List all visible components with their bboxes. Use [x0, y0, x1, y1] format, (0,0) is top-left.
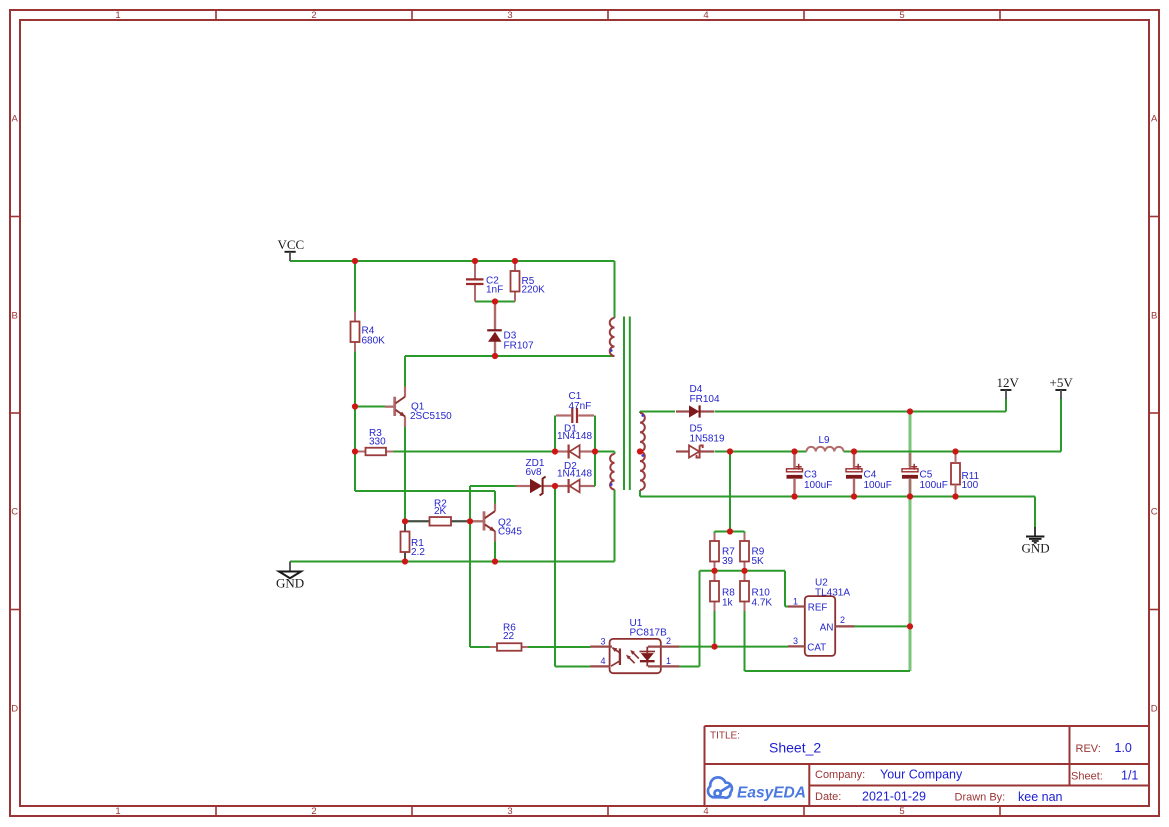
wire R6 row [470, 646, 591, 648]
svg-text:1N5819: 1N5819 [690, 434, 725, 445]
resistor R1 [401, 522, 426, 561]
svg-text:Drawn By:: Drawn By: [955, 792, 1006, 804]
node R7/R9 top [727, 528, 733, 534]
svg-text:Sheet_2: Sheet_2 [769, 740, 821, 756]
wire output GND rail [640, 496, 1035, 498]
wire aux winding top [595, 451, 615, 453]
12V net flag [997, 375, 1020, 399]
transformer primary winding [610, 318, 615, 356]
svg-text:680K: 680K [362, 336, 386, 347]
svg-text:C5: C5 [920, 470, 933, 481]
svg-text:47nF: 47nF [569, 401, 592, 412]
svg-text:220K: 220K [522, 285, 546, 296]
wire R7-R9 bottom row [700, 570, 786, 572]
wire opto pin4 row [555, 666, 591, 668]
svg-text:3: 3 [793, 636, 798, 646]
inductor L9 [807, 435, 844, 452]
node VCC rail / C2 [472, 258, 478, 264]
svg-text:TL431A: TL431A [815, 587, 850, 598]
node C5 bottom [907, 493, 913, 499]
svg-text:1: 1 [115, 10, 120, 21]
wire Q2 collector row [355, 490, 495, 492]
svg-text:2.2: 2.2 [411, 547, 425, 558]
wire R7 top [714, 532, 716, 542]
wire C2-R5 link [475, 301, 515, 303]
svg-text:CAT: CAT [807, 642, 826, 653]
node D1 right / aux [592, 448, 598, 454]
wire REF lead link [785, 606, 788, 608]
svg-text:5: 5 [899, 10, 904, 21]
node C4 bottom [851, 493, 857, 499]
capacitor C4 [846, 453, 892, 495]
svg-text:D: D [1151, 703, 1158, 714]
wire opto pin1 up [699, 571, 701, 667]
wire D3 branch bottom [494, 342, 496, 356]
svg-text:100uF: 100uF [804, 480, 832, 491]
zener diode ZD1 [516, 458, 555, 495]
diode D5 [676, 424, 725, 458]
wire R3 row to D1 node [355, 451, 555, 453]
svg-text:1N4148: 1N4148 [557, 431, 592, 442]
wire Q1 emitter drop [404, 417, 406, 522]
wire D2 row [555, 485, 595, 487]
wire ZD1 corner drop [469, 486, 471, 521]
wire R4 branch [354, 261, 356, 407]
svg-text:L9: L9 [819, 435, 831, 446]
svg-text:3: 3 [507, 806, 512, 817]
wire 5V rail right [844, 451, 1062, 453]
wire +5V flag drop [1060, 398, 1062, 452]
wire aux winding top stub [614, 452, 616, 455]
capacitor C3 [787, 453, 833, 495]
svg-text:3: 3 [507, 10, 512, 21]
svg-text:C: C [11, 506, 18, 517]
diode D2 [556, 461, 594, 493]
node snubber bottom [492, 298, 498, 304]
svg-text:1.0: 1.0 [1115, 741, 1132, 755]
svg-text:100: 100 [962, 480, 979, 491]
wire 5V rail left [715, 451, 807, 453]
capacitor C1 [556, 391, 594, 423]
svg-text:GND: GND [276, 576, 304, 591]
svg-text:1nF: 1nF [486, 285, 503, 296]
resistor R5 [511, 262, 546, 302]
node VCC rail / R4 [352, 258, 358, 264]
svg-text:Sheet:: Sheet: [1071, 771, 1103, 783]
svg-text:FR104: FR104 [690, 394, 720, 405]
wire GND flag drop [1034, 497, 1036, 528]
svg-text:5K: 5K [752, 556, 765, 567]
wire C1 left leg [554, 416, 556, 452]
wire Q1 collector drop [404, 356, 406, 397]
resistor R2 [406, 499, 469, 526]
svg-text:EasyEDA: EasyEDA [737, 785, 806, 802]
capacitor C2 [466, 262, 503, 302]
svg-text:GND: GND [1022, 541, 1050, 556]
svg-text:Company:: Company: [815, 769, 865, 781]
label U1 [630, 618, 668, 639]
wire CAT row [679, 646, 788, 648]
svg-text:2: 2 [666, 636, 671, 646]
wire R2 row [405, 520, 470, 522]
wire 12V flag stem [1005, 398, 1007, 412]
svg-text:330: 330 [369, 437, 386, 448]
EasyEDA logo [708, 777, 732, 797]
GND net flag left [276, 562, 304, 591]
svg-text:22: 22 [503, 631, 515, 642]
wire D3 branch top [494, 302, 496, 331]
wire clamp node drop to opto [554, 486, 556, 667]
resistor R9 [740, 533, 765, 570]
node R9/R10 [741, 568, 747, 574]
wire R4 node to R3 [354, 407, 356, 452]
wire R10 bottom row [745, 670, 911, 672]
VCC net flag [278, 237, 305, 261]
resistor R11 [951, 453, 980, 495]
wire primary bottom to Q1 collector [405, 355, 615, 357]
node D1 left / C1 [552, 448, 558, 454]
node Q2 emitter GND [492, 558, 498, 564]
wire AN row [835, 625, 910, 627]
svg-text:1: 1 [666, 656, 671, 666]
svg-text:100uF: 100uF [920, 480, 948, 491]
node R11 top [952, 448, 958, 454]
node secondary tap [637, 448, 643, 454]
wire Q2 base to R6 drop [469, 521, 471, 647]
resistor R3 [357, 428, 394, 455]
node R7/R8 [711, 568, 717, 574]
svg-text:5: 5 [899, 806, 904, 817]
wire VCC top rail [290, 260, 615, 262]
wire REF drop [784, 571, 786, 607]
svg-text:2: 2 [840, 615, 845, 625]
svg-text:C: C [1151, 506, 1158, 517]
svg-text:2: 2 [311, 806, 316, 817]
wire secondary top stub [639, 412, 641, 414]
node Q2 base [467, 518, 473, 524]
wire 12V to TL431 anode vertical [909, 412, 912, 672]
wire secondary top row [640, 411, 675, 413]
wire R10 branch [744, 571, 746, 671]
svg-text:1: 1 [793, 596, 798, 606]
label U2 [815, 578, 850, 599]
wire secondary bottom stub [639, 490, 641, 497]
GND net flag right [1022, 527, 1050, 556]
wire left drop to Q2 collector row [354, 452, 356, 492]
svg-text:1: 1 [115, 806, 120, 817]
svg-text:39: 39 [722, 556, 734, 567]
node R11 bottom [952, 493, 958, 499]
wire R8 branch [714, 571, 716, 647]
resistor R4 [351, 312, 386, 352]
svg-text:3: 3 [601, 636, 606, 646]
svg-text:C3: C3 [804, 470, 817, 481]
transformer aux winding [610, 454, 614, 490]
wire R5 branch [514, 261, 516, 302]
svg-text:B: B [1151, 310, 1157, 321]
resistor R6 [490, 623, 528, 651]
wire C2 branch top [474, 261, 476, 279]
svg-text:D: D [11, 703, 18, 714]
node D3 anode [492, 353, 498, 359]
svg-text:6v8: 6v8 [526, 467, 543, 478]
wire D1 row [555, 451, 595, 453]
svg-text:B: B [12, 310, 18, 321]
node Q1 base / R4 [352, 403, 358, 409]
svg-text:REF: REF [808, 603, 828, 614]
wire opto pin1 link [679, 666, 700, 668]
svg-text:+5V: +5V [1050, 375, 1074, 390]
resistor R8 [710, 572, 735, 611]
svg-text:kee nan: kee nan [1018, 790, 1063, 804]
wire aux winding bottom drop [614, 490, 616, 562]
diode D3 [487, 303, 534, 355]
node R3 left [352, 448, 358, 454]
wire 12V rail [715, 411, 1007, 413]
svg-text:1k: 1k [722, 598, 734, 609]
svg-text:TITLE:: TITLE: [710, 731, 740, 742]
svg-text:2021-01-29: 2021-01-29 [862, 790, 926, 804]
svg-text:VCC: VCC [278, 237, 305, 252]
svg-text:REV:: REV: [1076, 743, 1101, 755]
op-amp U1 PC817B optocoupler [590, 639, 679, 673]
svg-text:4: 4 [601, 656, 606, 666]
svg-text:4: 4 [703, 10, 708, 21]
wire R7-R9 top link [715, 531, 745, 533]
polarity dot secondary lower [641, 454, 644, 457]
polarity dot primary [610, 349, 613, 352]
svg-text:4.7K: 4.7K [752, 598, 773, 609]
capacitor C5 [902, 453, 948, 495]
node C3 top [791, 448, 797, 454]
wire R1 branch [404, 521, 406, 561]
svg-text:Your Company: Your Company [880, 768, 963, 782]
svg-text:1/1: 1/1 [1121, 769, 1138, 783]
wire Q2 collector drop [494, 491, 496, 511]
diode D1 [556, 424, 594, 459]
node R1 bottom GND [402, 558, 408, 564]
transistor Q1 [385, 387, 452, 428]
svg-text:C4: C4 [864, 470, 877, 481]
svg-text:100uF: 100uF [864, 480, 892, 491]
resistor R7 [710, 533, 735, 570]
wire Q2 emitter drop [494, 531, 496, 561]
svg-text:2K: 2K [434, 506, 447, 517]
+5V net flag [1050, 375, 1074, 399]
wire Q1 base [355, 406, 394, 408]
node AN / GND drop [907, 623, 913, 629]
wire ZD1 row [470, 485, 530, 487]
wire R9 top [744, 532, 746, 542]
node VCC rail / R5 [512, 258, 518, 264]
node C4 top [851, 448, 857, 454]
node D5 / divider [727, 448, 733, 454]
svg-text:12V: 12V [997, 375, 1020, 390]
svg-text:A: A [1151, 113, 1158, 124]
diode D4 [676, 384, 720, 418]
svg-text:PC817B: PC817B [630, 627, 668, 638]
wire C2 branch bottom [474, 285, 476, 302]
transistor Q2 [471, 504, 522, 542]
wire D2 up leg [594, 452, 596, 487]
svg-text:4: 4 [703, 806, 708, 817]
node ZD1 / D2 clamp [552, 483, 558, 489]
node R8 / CAT [711, 644, 717, 650]
svg-text:Date:: Date: [815, 791, 841, 803]
node R1 / R2 [402, 518, 408, 524]
svg-text:1N4148: 1N4148 [557, 468, 592, 479]
node C3 bottom [791, 493, 797, 499]
transformer secondary winding [640, 413, 645, 490]
resistor R10 [740, 572, 772, 611]
wire GND bottom rail [290, 561, 615, 563]
svg-text:2: 2 [311, 10, 316, 21]
svg-text:C945: C945 [498, 527, 522, 538]
op-amp U2 TL431A [788, 596, 854, 656]
svg-text:AN: AN [820, 622, 834, 633]
polarity dot secondary upper [641, 414, 644, 417]
svg-text:A: A [12, 113, 19, 124]
wire feedback divider drop [729, 452, 731, 532]
svg-text:FR107: FR107 [504, 341, 534, 352]
polarity dot aux [610, 483, 613, 486]
transformer core [623, 317, 625, 491]
wire C1 right leg [594, 416, 596, 452]
svg-text:2SC5150: 2SC5150 [410, 411, 452, 422]
node 12V / C5 branch [907, 408, 913, 414]
wire primary top drop [614, 261, 616, 318]
wire Q2 base lead [470, 520, 483, 522]
